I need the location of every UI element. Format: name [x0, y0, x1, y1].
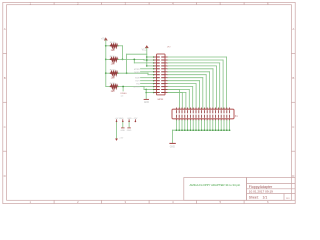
wire: J2 bottom pin to ground bus: [187, 120, 189, 130]
wire: C1 right pin 3 vertical to J2: [219, 63, 221, 109]
wire: SV1 pin3 down: [128, 122, 130, 127]
wire: C1 right pin 9 vertical to J2: [199, 81, 201, 110]
wire: net stub to C1 left pin 10: [141, 83, 155, 85]
wire: C1 right pin 12 vertical to J2: [188, 90, 190, 110]
wire: C1 right pin 2 vertical to J2: [222, 60, 224, 109]
svg-text:A: A: [292, 27, 294, 31]
wire: vertical link R1 to R2 net: [122, 46, 124, 60]
svg-text:R2 1k: R2 1k: [110, 56, 117, 58]
junction node on ground bus: [184, 129, 186, 131]
wire: C1 right pin 1 horizontal: [168, 56, 227, 58]
wire: left supply vertical bus: [105, 40, 107, 87]
junction node at C1 left pin 5: [153, 68, 155, 70]
svg-text:GND: GND: [120, 130, 125, 132]
wire: VCC to C1 pin 4: [147, 65, 154, 67]
wire: C1 right pin 6 vertical to J2: [209, 72, 211, 109]
junction node on ground bus: [176, 129, 178, 131]
resistor R1: [110, 44, 117, 47]
power supply symbol +5V (up arrow): [104, 37, 107, 40]
ground symbol GND below J2: [170, 142, 175, 144]
junction node on supply bus row 2: [105, 59, 107, 61]
junction node VCC pin4: [146, 65, 148, 67]
junction node on ground bus: [204, 129, 206, 131]
junction node on ground bus: [229, 129, 231, 131]
wire: C1 right pin 5 vertical to J2: [212, 69, 214, 109]
svg-text:RDY: RDY: [135, 81, 140, 83]
wire: C1 right pin 5 horizontal: [168, 68, 213, 70]
resistor R3: [110, 72, 117, 75]
svg-text:SIDE: SIDE: [135, 78, 140, 80]
wire: J2 bottom pin to ground bus: [198, 120, 200, 130]
junction node at C1 left pin 12: [153, 89, 155, 91]
resistor R1 value label 1k: [113, 48, 115, 50]
svg-text:1k0: 1k0: [111, 77, 116, 80]
wire: C1 right pin 3 horizontal: [168, 62, 220, 64]
wire: gnd vertical below C1: [145, 90, 147, 99]
wire: C1 right pin 6 horizontal: [168, 71, 210, 73]
junction node on ground bus: [206, 129, 208, 131]
svg-text:MTRX: MTRX: [134, 69, 141, 71]
svg-text:A: A: [4, 27, 6, 31]
wire: J2 bottom pin to ground bus: [175, 120, 177, 130]
junction node VCC pin2: [146, 59, 148, 61]
svg-text:GND: GND: [170, 147, 175, 149]
wire: R2 output horizontal: [118, 58, 144, 60]
junction node feed A / gnd vertical: [145, 89, 147, 91]
wire: lower feed line A left segment: [144, 89, 157, 91]
junction node at C1 left pin 11: [153, 86, 155, 88]
svg-text:1/1: 1/1: [263, 195, 268, 199]
wire: net stub to C1 left pin 5: [141, 68, 155, 70]
pin header SV1: [116, 120, 137, 123]
wire: C1 right pin 7 vertical to J2: [205, 75, 207, 110]
wire: J2 bottom pin to ground bus: [223, 120, 225, 130]
junction node R1/R2: [122, 59, 124, 61]
wire: ground bus left vertical: [171, 130, 173, 143]
svg-text:1k0: 1k0: [111, 90, 116, 93]
wire: C1 right pin 4 vertical to J2: [215, 66, 217, 109]
junction node VCC pin1: [146, 56, 148, 58]
svg-text:+5V: +5V: [119, 138, 123, 140]
junction node on ground bus: [190, 129, 192, 131]
wire: J2 bottom pin to ground bus: [181, 120, 183, 130]
wire: lower feed line B right segment to J2: [165, 92, 182, 94]
wire: supply bus to resistor R2: [106, 58, 111, 60]
wire: C1 right pin 13 horizontal: [168, 92, 186, 94]
junction node on ground bus: [220, 129, 222, 131]
wire: J2 bottom pin to ground bus: [192, 120, 194, 130]
wire: J2 bottom pin to ground bus: [206, 120, 208, 130]
junction node on ground bus: [178, 129, 180, 131]
wire: C1 right pin 12 horizontal: [168, 89, 190, 91]
wire: J2 bottom pin to ground bus: [215, 120, 217, 130]
svg-text:GND +12V: GND +12V: [127, 118, 138, 120]
wire: feed B vertical down to J2 col 3: [181, 93, 183, 110]
net label stub below R4: [122, 87, 124, 92]
junction node on supply bus row 1: [105, 45, 107, 47]
junction node on ground bus: [181, 129, 183, 131]
wire: R4 output horizontal: [118, 86, 144, 88]
svg-text:1k0: 1k0: [111, 49, 116, 52]
junction node on ground bus: [187, 129, 189, 131]
wire: J2 bottom pin to ground bus: [184, 120, 186, 130]
power symbol down arrow on SV1 pin1: [115, 139, 118, 141]
wire: net stub to C1 left pin 11: [141, 86, 155, 88]
drawing frame (decorative): [3, 1, 295, 204]
wire: C1 right pin 10 horizontal: [168, 83, 196, 85]
wire: upper feed line to C1: [127, 53, 147, 55]
wire: C1 right pin 7 horizontal: [168, 74, 207, 76]
wire: net stub to C1 left pin 6: [141, 71, 155, 73]
junction node at C1 left pin 4: [153, 65, 155, 67]
wire: J2 bottom pin to ground bus: [189, 120, 191, 130]
svg-text:1k0: 1k0: [111, 63, 116, 66]
svg-text:D: D: [4, 174, 6, 178]
wire: C1 right pin 10 vertical to J2: [195, 84, 197, 110]
junction node at C1 left pin 8: [153, 77, 155, 79]
connector C1 (13x2 box header): [154, 54, 168, 95]
junction node on ground bus: [226, 129, 228, 131]
svg-text:B: B: [292, 76, 294, 80]
wire: ground bus below J2: [172, 129, 229, 131]
svg-text:R1 1k: R1 1k: [110, 42, 117, 44]
wire: C1 right pin 8 horizontal: [168, 77, 203, 79]
wire: SV1 pin1 down: [116, 122, 118, 138]
junction node on ground bus: [198, 129, 200, 131]
wire: C1 right pin 11 horizontal: [168, 86, 193, 88]
wire: C1 right pin 13 vertical to J2: [185, 93, 187, 110]
junction node on supply bus row 3: [105, 72, 107, 74]
wire: J2 bottom pin to ground bus: [201, 120, 203, 130]
svg-text:Sheet:: Sheet:: [249, 195, 259, 199]
wire: branch down to C1 pin 3: [133, 59, 135, 63]
wire: J2 bottom pin to ground bus: [220, 120, 222, 130]
junction node at C1 left pin 9: [153, 80, 155, 82]
svg-text:AMIGA FLOPPY ADAPTER 34 to 34: AMIGA FLOPPY ADAPTER 34 to 34 pin: [190, 183, 241, 187]
svg-text:GND: GND: [144, 102, 149, 104]
wire: vertical from R3 net up: [126, 54, 128, 73]
svg-text:34PIN: 34PIN: [157, 99, 163, 101]
junction node on ground bus: [201, 129, 203, 131]
wire: J2 bottom pin to ground bus: [226, 120, 228, 130]
junction node on ground bus: [209, 129, 211, 131]
wire: C1 right pin 9 horizontal: [168, 80, 200, 82]
svg-text:VCC: VCC: [142, 49, 147, 51]
junction node at C1 left pin 6: [153, 71, 155, 73]
wire: C1 right pin 2 horizontal: [168, 59, 223, 61]
svg-text:10.01.2017 09:19: 10.01.2017 09:19: [249, 190, 273, 194]
wire: jog to C1 pin 2: [143, 58, 145, 61]
wire: SV1 pin2 down: [122, 122, 124, 127]
ground symbol GND on SV1 pin2: [121, 127, 124, 129]
junction node at C1 left pin 1: [153, 56, 155, 58]
wire: C1 right pin 11 vertical to J2: [192, 87, 194, 110]
wire: lower feed line B left segment: [146, 92, 156, 94]
junction node at C1 left pin 3: [153, 62, 155, 64]
wire: C1 right pin 4 horizontal: [168, 65, 217, 67]
svg-text:+5V GND: +5V GND: [115, 118, 124, 120]
svg-text:FloppyAdapter: FloppyAdapter: [249, 185, 273, 189]
svg-text:R3 1k: R3 1k: [110, 70, 117, 72]
wire: J2 bottom pin to ground bus: [178, 120, 180, 130]
wire: J2 bottom pin to ground bus: [217, 120, 219, 130]
junction node feed B / gnd vertical: [145, 92, 147, 94]
wire: C1 right pin 8 vertical to J2: [202, 78, 204, 110]
ground symbol GND on SV1 pin3: [128, 127, 131, 129]
wire: J2 bottom pin to ground bus: [203, 120, 205, 130]
svg-text:WPRO: WPRO: [133, 87, 140, 89]
resistor R4: [110, 85, 117, 88]
junction node at C1 left pin 7: [153, 74, 155, 76]
wire: J2 bottom pin to ground bus: [212, 120, 214, 130]
svg-text:GND: GND: [127, 130, 132, 132]
resistor R2: [110, 58, 117, 61]
wire: J2 bottom pin to ground bus: [209, 120, 211, 130]
junction node at C1 left pin 10: [153, 83, 155, 85]
wire: supply bus to resistor R4: [106, 86, 111, 88]
junction node on ground bus: [192, 129, 194, 131]
junction node on ground bus: [212, 129, 214, 131]
ground symbol GND below C1: [144, 98, 148, 100]
wire: net stub to C1 left pin 8: [141, 77, 155, 79]
svg-text:C: C: [292, 125, 294, 129]
junction node at C1 left pin 13: [153, 92, 155, 94]
svg-text:DKRD: DKRD: [134, 72, 140, 74]
svg-text:B: B: [4, 76, 6, 80]
wire: C1 right pin 1 vertical to J2: [226, 57, 228, 109]
svg-text:+5V: +5V: [101, 38, 106, 41]
wire: R3 output to C1 pin 7: [118, 72, 148, 74]
resistor R3 value label 1k: [113, 75, 115, 77]
junction node at branch: [133, 59, 135, 61]
junction node on R4 wire: [122, 86, 124, 88]
wire: net stub to C1 left pin 9: [141, 80, 155, 82]
wire: R4 net down to lower feed: [143, 87, 145, 90]
resistor R4 value label 1k: [113, 88, 115, 90]
svg-text:R4 1k: R4 1k: [110, 83, 117, 85]
wire: supply bus to resistor R3: [106, 72, 111, 74]
junction node on ground bus: [195, 129, 197, 131]
svg-text:C: C: [4, 125, 6, 129]
wire: J2 bottom pin to ground bus: [229, 120, 231, 130]
junction node on ground bus: [215, 129, 217, 131]
title block docfield: [184, 178, 295, 201]
connector J2 (20x2 box header): [172, 108, 234, 120]
wire: feed A vertical down to J2 col 2: [178, 90, 180, 110]
junction node on R3 net: [126, 72, 128, 74]
wire: VCC vertical: [146, 48, 148, 66]
wire: lower feed line A right segment to J2: [165, 89, 179, 91]
wire: R1 output horizontal: [118, 45, 123, 47]
power supply symbol VCC (up arrow at C1): [145, 45, 148, 48]
wire: VCC to C1 pin 1: [147, 56, 154, 58]
wire: supply bus to resistor R1: [106, 45, 111, 47]
resistor R2 value label 1k: [113, 61, 115, 63]
junction node on ground bus: [223, 129, 225, 131]
wire: J2 bottom pin to ground bus: [195, 120, 197, 130]
junction node at C1 left pin 2: [153, 59, 155, 61]
junction node on ground bus: [218, 129, 220, 131]
